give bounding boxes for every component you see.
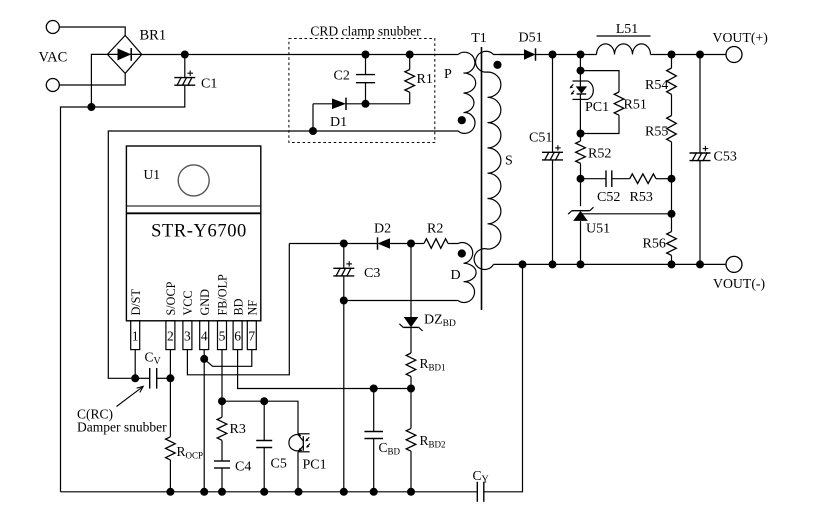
svg-text:VOUT(+): VOUT(+): [713, 30, 768, 46]
label C2: [334, 68, 350, 83]
svg-text:C4: C4: [235, 460, 251, 475]
svg-text:D: D: [451, 268, 461, 283]
resistor ROCP: [166, 378, 176, 492]
shunt regulator U51: [568, 179, 593, 265]
junction C3 top: [340, 240, 348, 248]
wire CY to secondary ground: [484, 264, 523, 491]
diode D51: [500, 48, 553, 60]
svg-text:D51: D51: [519, 31, 543, 46]
svg-text:R55: R55: [645, 125, 668, 140]
junction RBD2 bus: [407, 488, 415, 496]
resistor R56: [667, 214, 677, 265]
junction PC1 bus: [295, 488, 303, 496]
label U51: [586, 222, 610, 237]
capacitor CY: [477, 482, 484, 502]
svg-text:C53: C53: [714, 150, 737, 165]
wire return left rail: [61, 107, 92, 492]
label C51: [529, 131, 552, 146]
label R53: [630, 190, 653, 205]
svg-text:D1: D1: [330, 115, 347, 130]
label C(RC): [77, 407, 113, 422]
svg-text:R56: R56: [643, 237, 666, 252]
svg-text:C3: C3: [364, 266, 380, 281]
wire aux line: [289, 243, 344, 245]
svg-text:7: 7: [248, 329, 255, 344]
IC U1 package outline: [126, 146, 260, 321]
wire drain line: [108, 131, 451, 378]
label CBD: [379, 440, 401, 457]
label STR-Y6700: [151, 222, 247, 242]
junction C5 bus: [260, 488, 268, 496]
junction CBD top: [370, 385, 378, 393]
pin 2 box: [166, 321, 175, 350]
label RBD1: [420, 356, 446, 373]
svg-text:D2: D2: [374, 222, 391, 237]
junction CY riser: [519, 260, 527, 268]
label R56: [643, 237, 666, 252]
junction C51 top: [549, 51, 557, 59]
label VOUT(-): [713, 276, 765, 292]
label CV: [145, 350, 162, 368]
label R3: [230, 422, 246, 437]
resistor R1: [405, 55, 415, 104]
wire snubber bottom: [366, 103, 410, 105]
junction C1 top: [181, 51, 189, 59]
resistor R52: [576, 134, 586, 179]
junction R53 right: [668, 175, 676, 183]
junction bridge negative: [87, 103, 95, 111]
transformer secondary S winding: [474, 51, 520, 269]
CRD clamp snubber box: [289, 39, 435, 143]
junction C3 bottom: [340, 297, 348, 305]
pin label S/OCP: [164, 281, 178, 315]
label CY: [473, 468, 489, 486]
capacitor C4: [214, 461, 230, 492]
junction LED bottom: [577, 130, 585, 138]
zener DZBD: [399, 244, 422, 354]
junction D2 anode: [407, 240, 415, 248]
junction CBD bus: [370, 488, 378, 496]
wire D1 anode drop: [312, 104, 314, 131]
junction pin1 node: [131, 374, 139, 382]
svg-text:C2: C2: [334, 68, 350, 83]
capacitor C5: [256, 401, 272, 492]
label R51: [624, 98, 647, 113]
junction C2 top: [362, 51, 370, 59]
svg-text:D/ST: D/ST: [129, 289, 143, 316]
label C3: [364, 266, 380, 281]
svg-text:S: S: [505, 154, 513, 169]
capacitor CV: [135, 368, 170, 389]
svg-text:3: 3: [184, 329, 191, 344]
wire pin6 BD route: [238, 350, 411, 389]
capacitor C3: [333, 244, 354, 301]
svg-text:PC1: PC1: [303, 458, 327, 473]
capacitor C53: [690, 55, 711, 265]
svg-text:BR1: BR1: [140, 28, 167, 44]
capacitor C2: [356, 55, 375, 104]
label D2: [374, 222, 391, 237]
svg-text:R51: R51: [624, 98, 647, 113]
pin label D/ST: [129, 289, 143, 316]
wire bridge negative arm: [91, 54, 107, 107]
label ROCP: [177, 444, 204, 461]
wire pin2 lead: [169, 350, 171, 379]
resistor R2: [411, 239, 452, 249]
svg-text:R2: R2: [427, 222, 443, 237]
D winding phase dot: [458, 249, 466, 257]
wire pin4 ground line: [203, 359, 205, 492]
svg-text:FB/OLP: FB/OLP: [216, 274, 230, 316]
transformer primary P winding: [452, 52, 476, 133]
junction R52 bottom: [577, 175, 585, 183]
arrow damper snubber pointer: [117, 386, 144, 406]
optocoupler PC1 transistor: [289, 401, 310, 492]
terminal VAC bottom: [46, 79, 59, 92]
secondary phase dot: [493, 61, 501, 69]
junction C53 top: [696, 51, 704, 59]
svg-text:P: P: [444, 67, 452, 82]
svg-text:STR-Y6700: STR-Y6700: [151, 222, 247, 242]
svg-text:4: 4: [201, 329, 208, 344]
svg-text:VAC: VAC: [39, 50, 68, 66]
pin 5 number: [219, 329, 226, 344]
label C4: [235, 460, 251, 475]
label PC1 secondary: [585, 100, 609, 115]
label Damper snubber: [77, 420, 167, 435]
pin 4 box: [200, 321, 209, 350]
svg-text:CV: CV: [145, 350, 162, 368]
pin 1 box: [131, 321, 140, 350]
pin label NF: [246, 300, 260, 316]
svg-text:CBD: CBD: [379, 440, 401, 457]
transformer D winding: [452, 243, 477, 303]
terminal VOUT plus: [726, 47, 742, 63]
svg-text:R54: R54: [645, 78, 668, 93]
pin 6 box: [233, 321, 242, 350]
resistor R55: [667, 116, 677, 179]
svg-text:T1: T1: [471, 31, 487, 46]
resistor R54: [667, 55, 677, 116]
pin 5 box: [218, 321, 227, 350]
junction U51 anode bus: [577, 260, 585, 268]
svg-text:RBD1: RBD1: [420, 356, 446, 373]
label P: [444, 67, 452, 82]
junction LED top: [577, 67, 585, 75]
pin 1 number: [132, 329, 139, 344]
wire pin1 lead: [134, 350, 136, 379]
svg-text:CY: CY: [473, 468, 489, 486]
svg-text:CRD clamp snubber: CRD clamp snubber: [310, 24, 421, 39]
svg-text:NF: NF: [246, 300, 260, 316]
junction C51 bottom: [549, 260, 557, 268]
wire top rail D51 to L51: [553, 54, 597, 56]
label VOUT(+): [713, 30, 768, 46]
svg-text:R3: R3: [230, 422, 246, 437]
junction U51 ref: [668, 210, 676, 218]
label R2: [427, 222, 443, 237]
wire aux return: [344, 300, 452, 302]
svg-text:C5: C5: [271, 457, 287, 472]
wire pin4 lead: [203, 350, 205, 359]
svg-text:C1: C1: [201, 76, 217, 91]
svg-text:C52: C52: [597, 190, 620, 205]
label RBD2: [420, 433, 446, 450]
label R1: [417, 72, 433, 87]
label D1: [330, 115, 347, 130]
wire bottom rail secondary: [494, 263, 727, 265]
wire pin5 lead: [221, 350, 223, 402]
junction C53 bus: [696, 260, 704, 268]
pin label VCC: [181, 290, 195, 315]
svg-text:R52: R52: [588, 147, 611, 162]
label C52: [597, 190, 620, 205]
svg-text:5: 5: [219, 329, 226, 344]
resistor R51: [581, 71, 624, 134]
junction ROCP bus: [166, 488, 174, 496]
bridge rectifier BR1: [107, 35, 141, 73]
wire AC bottom: [59, 73, 125, 85]
junction FB node: [218, 397, 226, 405]
svg-text:L51: L51: [616, 21, 638, 36]
label VAC: [39, 50, 68, 66]
inductor L51: [597, 36, 651, 55]
wire DC bus top: [142, 54, 452, 56]
pin 7 number: [248, 329, 255, 344]
junction R54 top: [668, 51, 676, 59]
junction GND node: [200, 355, 208, 363]
svg-text:DZBD: DZBD: [424, 313, 456, 330]
label CRD clamp snubber: [310, 24, 421, 39]
label DZBD: [424, 313, 456, 330]
svg-text:VCC: VCC: [181, 290, 195, 315]
junction GND bus: [200, 488, 208, 496]
capacitor C51: [542, 55, 563, 265]
label S: [505, 154, 513, 169]
pin 6 number: [234, 329, 241, 344]
wire FB line: [222, 400, 299, 402]
junction R3C4 bus: [218, 488, 226, 496]
pin 2 number: [167, 329, 174, 344]
pin label BD: [231, 298, 245, 315]
wire C1 bottom: [91, 85, 184, 107]
label R55: [645, 125, 668, 140]
terminal VOUT minus: [726, 256, 742, 272]
pin 7 box: [247, 321, 256, 350]
wire U51 reference: [582, 213, 672, 215]
wire top rail L51 to VOUT: [651, 54, 727, 56]
junction PC1 branch top: [577, 51, 585, 59]
primary phase dot: [458, 116, 466, 124]
optocoupler PC1 LED: [570, 55, 594, 134]
junction BD node: [407, 385, 415, 393]
svg-text:RBD2: RBD2: [420, 433, 446, 450]
wire divider mid: [671, 179, 673, 214]
wire AC top: [59, 27, 125, 36]
svg-text:1: 1: [132, 329, 139, 344]
label T1: [471, 31, 487, 46]
svg-text:R1: R1: [417, 72, 433, 87]
capacitor C1: [174, 55, 195, 86]
pin 3 box: [183, 321, 192, 350]
label U1: [144, 167, 161, 182]
svg-text:S/OCP: S/OCP: [164, 281, 178, 315]
pin label FB/OLP: [216, 274, 230, 316]
resistor RBD1: [406, 353, 416, 389]
U1 mounting hole: [178, 165, 209, 196]
pin 3 number: [184, 329, 191, 344]
junction D1 cathode: [362, 100, 370, 108]
label R52: [588, 147, 611, 162]
diode D2: [344, 237, 411, 249]
wire pin3 VCC route: [187, 244, 289, 375]
resistor R53: [630, 174, 672, 184]
wire bottom bus: [61, 491, 478, 493]
wire pin7 NF tie: [204, 350, 252, 367]
wire C3 ground drop: [343, 301, 345, 492]
diode D1: [313, 98, 366, 110]
label D51: [519, 31, 543, 46]
label C1: [201, 76, 217, 91]
junction R56 bus: [668, 260, 676, 268]
label BR1: [140, 28, 167, 44]
junction R1 top: [406, 51, 414, 59]
label R54: [645, 78, 668, 93]
svg-text:BD: BD: [231, 298, 245, 315]
capacitor C52: [581, 170, 630, 187]
pin 4 number: [201, 329, 208, 344]
junction C3 bus: [340, 488, 348, 496]
label L51: [616, 21, 638, 36]
label C5: [271, 457, 287, 472]
junction pin2 node: [166, 374, 174, 382]
svg-text:U51: U51: [586, 222, 610, 237]
svg-text:C51: C51: [529, 131, 552, 146]
svg-text:U1: U1: [144, 167, 161, 182]
svg-text:6: 6: [234, 329, 241, 344]
svg-text:Damper snubber: Damper snubber: [77, 420, 167, 435]
label C53: [714, 150, 737, 165]
pin label GND: [198, 289, 212, 316]
svg-text:VOUT(-): VOUT(-): [713, 276, 765, 292]
svg-text:GND: GND: [198, 289, 212, 316]
junction C5 top: [260, 397, 268, 405]
label D: [451, 268, 461, 283]
svg-text:PC1: PC1: [585, 100, 609, 115]
svg-text:R53: R53: [630, 190, 653, 205]
terminal VAC top: [46, 21, 59, 34]
svg-text:ROCP: ROCP: [177, 444, 204, 461]
resistor R3: [217, 401, 227, 461]
svg-text:2: 2: [167, 329, 174, 344]
resistor RBD2: [406, 389, 416, 492]
transformer T1 core: [481, 47, 483, 310]
junction drain tap: [309, 127, 317, 135]
capacitor CBD: [364, 389, 383, 492]
label PC1 primary: [303, 458, 327, 473]
